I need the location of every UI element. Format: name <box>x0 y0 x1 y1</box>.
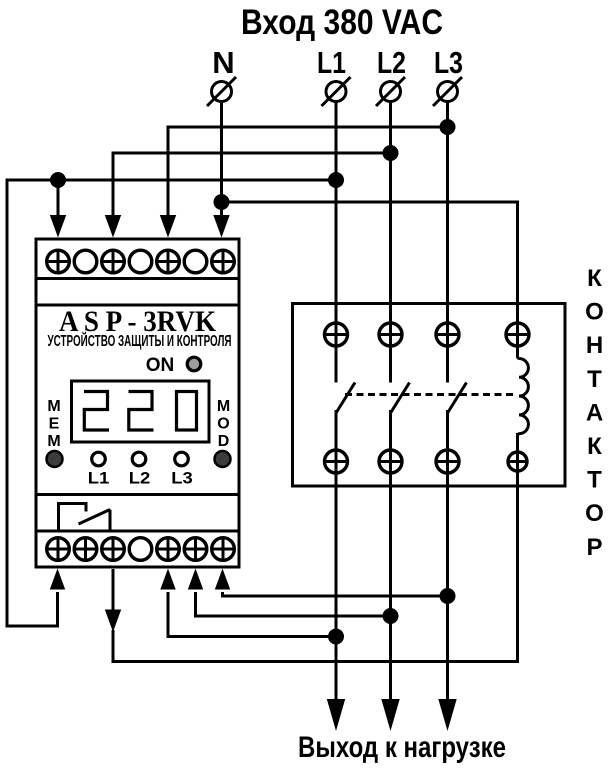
contactor bottom terminal pole2 <box>379 450 402 473</box>
contact pole3 blade <box>448 383 467 414</box>
display bezel <box>72 381 210 442</box>
arrow into device top terminal 1 <box>50 215 66 238</box>
display digit 2 (second) <box>129 392 154 431</box>
device top terminal 6 <box>184 250 207 273</box>
device top terminal 4 <box>129 250 152 273</box>
label MEM <box>47 398 60 450</box>
arrow up into device bottom terminal 5 <box>160 569 175 590</box>
svg-text:УСТРОЙСТВО ЗАЩИТЫ И КОНТРОЛЯ: УСТРОЙСТВО ЗАЩИТЫ И КОНТРОЛЯ <box>48 332 232 350</box>
wire relay output from bottom terminal 3 <box>112 569 115 611</box>
svg-text:Т: Т <box>587 366 602 393</box>
contact pole1 blade <box>336 383 355 414</box>
display digit 0 <box>177 392 197 431</box>
svg-text:L3: L3 <box>171 470 193 488</box>
LED L3 <box>175 452 189 466</box>
contactor box <box>293 304 566 487</box>
relay contact symbol <box>59 504 111 532</box>
svg-text:L2: L2 <box>377 45 406 80</box>
svg-text:L1: L1 <box>317 45 346 80</box>
arrow into device top terminal 5 <box>160 215 176 238</box>
contactor coil top terminal <box>506 323 529 346</box>
junction dot L2 output <box>383 608 399 624</box>
contactor top terminal pole3 <box>436 323 459 346</box>
arrow L3 output <box>438 699 456 731</box>
device horizontal line under top terminals <box>36 277 239 280</box>
wire L1 vertical <box>335 102 338 383</box>
device bottom terminal 7 <box>212 538 235 561</box>
device bottom terminal 4 <box>129 538 152 561</box>
contactor top terminal pole1 <box>325 323 348 346</box>
svg-text:Т: Т <box>587 467 602 494</box>
wire L1 output vertical <box>335 410 338 701</box>
contactor coil bottom terminal <box>508 452 527 471</box>
svg-text:Вход 380 VAC: Вход 380 VAC <box>241 3 443 42</box>
device bottom terminal 2 <box>74 538 97 561</box>
svg-text:О: О <box>585 500 604 527</box>
wire L3 branch y=127 to device terminal 5 <box>168 127 448 216</box>
device bottom terminal 6 <box>184 538 207 561</box>
device bottom terminal 5 <box>157 538 180 561</box>
svg-text:L2: L2 <box>129 470 151 488</box>
wire L3 feedback to device bottom terminal 7 <box>223 592 448 596</box>
label MOD <box>217 398 230 450</box>
arrow L1 output <box>327 699 345 731</box>
arrow into device top terminal 3 <box>105 215 121 238</box>
arrow down on relay output wire <box>105 610 121 633</box>
arrow up into device bottom terminal 6 <box>188 569 203 590</box>
svg-text:M: M <box>47 433 60 450</box>
coil winding <box>518 347 529 451</box>
LED L2 <box>132 452 146 466</box>
svg-text:E: E <box>49 416 60 433</box>
junction dot L3 output <box>440 588 456 604</box>
svg-text:О: О <box>585 299 604 326</box>
arrow up into device bottom terminal 1 <box>50 569 65 590</box>
arrow into device top terminal 7 <box>213 215 229 238</box>
wire down to device top terminal 1 <box>57 180 60 216</box>
svg-text:O: O <box>217 416 229 433</box>
contactor bottom terminal pole1 <box>325 450 348 473</box>
display digit 2 (first) <box>84 392 109 431</box>
wire L2 vertical <box>389 102 392 383</box>
device horizontal line top of bottom terminals <box>36 530 239 533</box>
button MOD <box>215 451 231 467</box>
device top terminal 3 <box>102 250 125 273</box>
contactor bottom terminal pole3 <box>436 450 459 473</box>
device ASP-3RVK outer box <box>36 239 239 567</box>
device bottom terminal 1 <box>47 538 70 561</box>
svg-text:А: А <box>586 399 603 426</box>
svg-text:M: M <box>217 398 230 415</box>
svg-text:Выход к нагрузке: Выход к нагрузке <box>298 731 506 764</box>
wire L1 feedback to device bottom terminal 5 <box>168 592 336 637</box>
wire relay output to coil return <box>113 433 518 662</box>
device top terminal 7 <box>212 250 235 273</box>
junction dot at terminal1 branch <box>50 172 66 188</box>
contactor top terminal pole2 <box>379 323 402 346</box>
svg-text:К: К <box>587 265 602 292</box>
junction dot L3 <box>440 119 456 135</box>
contact pole2 blade <box>391 383 410 414</box>
wire L2 output vertical <box>389 410 392 701</box>
wire L3 output vertical <box>446 410 449 701</box>
wire L2 branch y=153 to device terminal 3 <box>113 153 391 216</box>
svg-text:D: D <box>218 433 230 450</box>
input terminal L1 (circle-slash) <box>322 77 351 106</box>
svg-text:К: К <box>587 433 602 460</box>
device bottom terminal 3 <box>102 538 125 561</box>
device top terminal 5 <box>157 250 180 273</box>
svg-text:M: M <box>47 398 60 415</box>
wire N vertical down to device terminal 7 <box>220 102 223 216</box>
arrow L2 output <box>381 699 399 731</box>
arrow up into device bottom terminal 7 <box>215 569 230 590</box>
device top terminal 1 <box>47 250 70 273</box>
wire L2 feedback to device bottom terminal 6 <box>196 592 391 616</box>
wire N to contactor coil horizontal y=202 <box>222 202 518 357</box>
input terminal L2 (circle-slash) <box>376 77 405 106</box>
device horizontal line bottom of face <box>36 493 239 496</box>
svg-text:ON: ON <box>146 355 175 376</box>
LED L1 <box>92 452 106 466</box>
junction dot L1 <box>328 172 344 188</box>
svg-text:N: N <box>212 45 234 80</box>
ON LED <box>187 357 201 371</box>
input terminal L3 (circle-slash) <box>433 77 462 106</box>
junction dot L1 output <box>328 629 344 645</box>
svg-text:Н: Н <box>586 332 603 359</box>
device top terminal 2 <box>74 250 97 273</box>
input terminal N (circle-slash) <box>207 77 236 106</box>
label КОНТАКТОР vertical <box>585 265 604 561</box>
button MEM <box>47 451 63 467</box>
device horizontal line top of face <box>36 304 239 307</box>
wire L1 branch y=180 to device terminal 1 and left bypass <box>7 180 336 626</box>
svg-text:L1: L1 <box>88 470 110 488</box>
linkage dashed line <box>345 393 516 396</box>
wire L3 vertical <box>446 102 449 383</box>
junction dot L2 <box>383 145 399 161</box>
svg-text:L3: L3 <box>434 45 463 80</box>
svg-text:Р: Р <box>586 534 602 561</box>
junction dot N <box>214 194 230 210</box>
